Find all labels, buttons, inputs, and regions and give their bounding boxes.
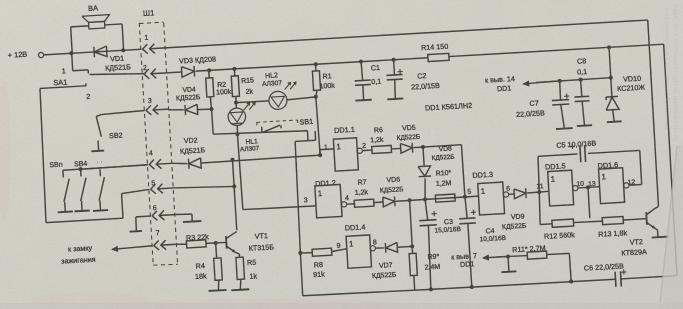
svg-text:SB1: SB1 xyxy=(299,117,313,127)
svg-text:1,2М: 1,2М xyxy=(436,180,452,188)
svg-text:1,2k: 1,2k xyxy=(355,189,369,197)
svg-text:C3: C3 xyxy=(444,219,453,227)
svg-text:1,2k: 1,2k xyxy=(370,137,384,145)
svg-text:91k: 91k xyxy=(313,269,325,279)
svg-text:1: 1 xyxy=(61,66,66,75)
svg-text:5: 5 xyxy=(467,189,471,196)
svg-text:КД522Б: КД522Б xyxy=(502,223,527,231)
svg-text:2,4М: 2,4М xyxy=(424,264,440,272)
svg-text:КД521Б: КД521Б xyxy=(180,147,206,155)
svg-text:R6: R6 xyxy=(374,127,383,135)
svg-text:18k: 18k xyxy=(195,271,207,281)
svg-text:КД522Б: КД522Б xyxy=(431,154,454,162)
svg-text:VD5: VD5 xyxy=(402,125,416,133)
svg-text:+ 12В: + 12В xyxy=(7,50,27,60)
svg-text:R13 1,8k: R13 1,8k xyxy=(598,228,628,239)
svg-text:VT1: VT1 xyxy=(254,231,268,241)
svg-text:АЛ307: АЛ307 xyxy=(262,80,283,88)
svg-text:R1: R1 xyxy=(322,73,331,81)
svg-text:1: 1 xyxy=(144,35,148,42)
svg-text:VD7: VD7 xyxy=(379,262,393,270)
svg-text:КД522Б: КД522Б xyxy=(372,272,397,280)
svg-text:R9*: R9* xyxy=(427,253,439,261)
svg-text:C1: C1 xyxy=(371,63,381,73)
svg-text:КТ829А: КТ829А xyxy=(621,247,647,257)
svg-text:КД522Б: КД522Б xyxy=(380,186,404,194)
svg-text:6: 6 xyxy=(506,186,510,193)
svg-text:и не скорую типа в на равно по: и не скорую типа в на равно по больше че… xyxy=(663,8,669,130)
svg-text:R11* 2,7М: R11* 2,7М xyxy=(512,243,546,254)
svg-text:C8: C8 xyxy=(577,56,587,66)
svg-text:R15: R15 xyxy=(241,77,254,85)
svg-text:R12 560k: R12 560k xyxy=(544,230,576,241)
svg-text:8: 8 xyxy=(373,239,377,246)
svg-text:BA: BA xyxy=(88,3,98,13)
svg-text:11: 11 xyxy=(536,183,544,190)
svg-text:C4: C4 xyxy=(485,228,494,236)
svg-text:R5: R5 xyxy=(247,258,257,268)
svg-text:DD1: DD1 xyxy=(460,259,475,269)
svg-text:C7: C7 xyxy=(529,98,539,108)
svg-text:VD2: VD2 xyxy=(184,137,198,145)
svg-text:КТ315Б: КТ315Б xyxy=(248,242,274,252)
svg-text:Ш1: Ш1 xyxy=(143,8,155,18)
svg-text:4: 4 xyxy=(149,150,153,157)
svg-text:R10*: R10* xyxy=(436,170,452,178)
svg-text:КД522Б: КД522Б xyxy=(396,134,420,142)
svg-text:АЛ307: АЛ307 xyxy=(240,145,260,153)
svg-text:SA1: SA1 xyxy=(53,77,67,87)
svg-text:3: 3 xyxy=(148,98,152,105)
svg-text:VT2: VT2 xyxy=(629,237,643,247)
svg-text:2k: 2k xyxy=(245,88,253,95)
svg-text:· ·: · · xyxy=(96,159,103,166)
svg-text:3: 3 xyxy=(304,197,308,204)
svg-text:VD4: VD4 xyxy=(182,86,196,94)
svg-text:КД522Б: КД522Б xyxy=(176,94,201,102)
svg-text:R14 150: R14 150 xyxy=(421,42,449,53)
svg-text:R2: R2 xyxy=(217,82,226,90)
svg-text:1k: 1k xyxy=(249,271,258,280)
svg-text:22,0/15В: 22,0/15В xyxy=(411,81,440,92)
svg-text:2: 2 xyxy=(362,143,366,150)
svg-text:C2: C2 xyxy=(417,71,427,81)
svg-text:КС210Ж: КС210Ж xyxy=(617,83,646,94)
svg-text:R3 22k: R3 22k xyxy=(186,232,210,242)
svg-text:100k: 100k xyxy=(319,83,335,91)
svg-text:DD1.4: DD1.4 xyxy=(344,222,365,232)
svg-text:R7: R7 xyxy=(357,179,366,187)
svg-text:DD1.1: DD1.1 xyxy=(334,125,355,135)
svg-text:7: 7 xyxy=(156,230,160,237)
svg-text:SB4: SB4 xyxy=(74,161,88,169)
svg-text:HL2: HL2 xyxy=(265,72,278,80)
svg-text:0,1: 0,1 xyxy=(371,77,382,87)
svg-text:2: 2 xyxy=(86,92,91,101)
svg-text:4: 4 xyxy=(345,195,349,202)
svg-text:DD1.2: DD1.2 xyxy=(315,178,336,188)
svg-text:DD1.3: DD1.3 xyxy=(472,170,493,180)
svg-text:100k: 100k xyxy=(216,89,232,97)
svg-text:DD1: DD1 xyxy=(497,83,512,93)
svg-text:0,1: 0,1 xyxy=(577,67,588,77)
svg-text:VD9: VD9 xyxy=(511,213,525,221)
svg-text:1: 1 xyxy=(324,145,328,152)
svg-text:SB2: SB2 xyxy=(109,130,123,140)
svg-text:R8: R8 xyxy=(314,260,324,270)
svg-text:к замку: к замку xyxy=(68,243,93,253)
svg-text:видно что и статсолько в для н: видно что и статсолько в для на примерно… xyxy=(672,4,678,142)
svg-text:КД521Б: КД521Б xyxy=(105,62,132,72)
svg-text:VD8: VD8 xyxy=(438,145,452,153)
svg-text:9: 9 xyxy=(336,243,340,250)
svg-text:R4: R4 xyxy=(195,261,205,271)
svg-text:VD6: VD6 xyxy=(386,176,400,184)
svg-text:22,0/25В: 22,0/25В xyxy=(516,108,545,119)
svg-text:SBn: SBn xyxy=(49,161,63,169)
